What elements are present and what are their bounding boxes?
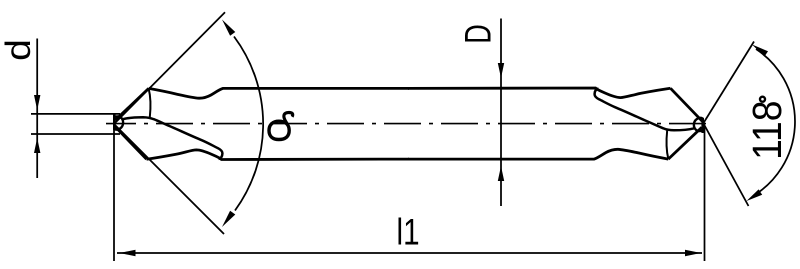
- dimension D: vertical dimension line: [500, 19, 502, 207]
- tip face bar: [113, 115, 116, 130]
- dimension l1: right arrow: [685, 250, 701, 256]
- dimension D: lower arrow: [498, 166, 504, 181]
- angle 118: upper thin line: [704, 42, 755, 124]
- angle alpha: lower arc arrow: [222, 211, 235, 227]
- flute leaf boundary: [123, 117, 223, 159]
- angle alpha: upper thin line: [114, 12, 225, 124]
- svg-text:l1: l1: [396, 213, 419, 254]
- dimension l1: dimension line: [117, 252, 702, 254]
- dimension d: upper arrow: [34, 95, 40, 110]
- bottom edge with flute hump: [147, 150, 410, 160]
- dimension l1: left extension line: [113, 127, 115, 261]
- angle alpha: lower thin line: [114, 124, 224, 234]
- svg-text:d: d: [0, 39, 38, 61]
- dimension D: upper arrow: [498, 63, 504, 78]
- drill body left half: [114, 88, 409, 159]
- angle 118: lower arc arrow: [747, 189, 763, 201]
- angle 118: upper arc arrow: [752, 45, 768, 57]
- svg-text:D: D: [457, 24, 498, 44]
- cone lower edge: [115, 126, 147, 159]
- dimension d: extension line bottom: [31, 133, 120, 135]
- angle alpha: arc: [234, 37, 263, 211]
- top edge with flute dip: [149, 88, 409, 98]
- angle alpha: upper arc arrow: [222, 20, 235, 36]
- flute edge on cone face: [149, 89, 151, 118]
- tip bulge: [115, 116, 124, 129]
- degree dot: [760, 97, 765, 102]
- dimension l1: left arrow: [120, 250, 136, 256]
- angle 118: arc: [753, 49, 795, 196]
- angle 118: lower thin line: [704, 124, 749, 207]
- svg-text:118: 118: [746, 100, 791, 159]
- dimension d: extension line top: [31, 113, 120, 115]
- cone upper edge: [115, 88, 149, 120]
- centerline: [106, 123, 707, 125]
- drill body right half (180deg rotated copy): [408, 88, 703, 159]
- dimension l1: right extension line: [704, 126, 706, 261]
- label alpha: [269, 121, 289, 139]
- dimension d: lower arrow: [34, 138, 40, 153]
- dimension d: vertical dimension line: [36, 39, 38, 179]
